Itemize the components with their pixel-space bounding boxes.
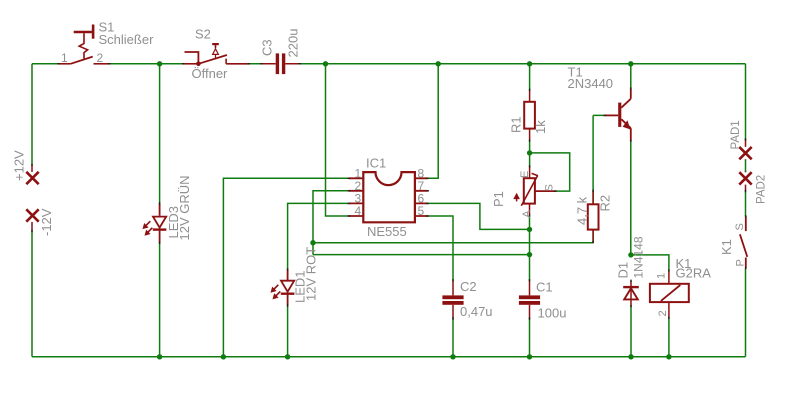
node top rail junctions	[157, 61, 634, 66]
svg-text:G2RA: G2RA	[676, 266, 712, 281]
svg-text:P1: P1	[491, 191, 506, 207]
wire pot A to C1	[529, 216, 531, 357]
svg-text:100u: 100u	[538, 306, 567, 321]
wire pin-end dark ticks	[32, 64, 746, 320]
wire R1 column and wiper loop	[530, 64, 570, 191]
wire IC pin8 to top rail	[428, 64, 439, 179]
resistor R1	[524, 90, 535, 141]
LED3 12V GRUEN	[143, 203, 166, 242]
svg-text:PAD1: PAD1	[730, 120, 742, 149]
wire IC pin1 to ground	[223, 178, 348, 356]
svg-text:-12V: -12V	[39, 208, 54, 236]
svg-text:NE555: NE555	[367, 224, 407, 239]
svg-text:D1: D1	[616, 262, 631, 279]
svg-text:S: S	[734, 223, 746, 230]
capacitor C2	[442, 295, 463, 304]
pad PAD1	[739, 140, 751, 161]
svg-text:E: E	[519, 171, 531, 178]
svg-text:Öffner: Öffner	[192, 66, 229, 81]
svg-text:A: A	[521, 210, 533, 218]
svg-text:Schließer: Schließer	[99, 32, 155, 47]
wire IC pin3 to LED1	[288, 203, 349, 356]
svg-text:PAD2: PAD2	[756, 175, 768, 204]
node S2 pivot	[196, 62, 201, 67]
switch S1	[59, 25, 110, 64]
switch S2	[183, 44, 249, 64]
svg-text:4,7 k: 4,7 k	[575, 196, 590, 225]
wire IC pin6 to pot	[428, 203, 530, 229]
label IC1 pin numbers right	[418, 167, 425, 219]
wire left rail	[31, 64, 33, 357]
wire IC pin2 net	[313, 191, 593, 255]
svg-text:1k: 1k	[533, 120, 548, 134]
LED1 12V ROT	[271, 269, 294, 305]
wire T1 collector / emitter column	[630, 64, 632, 357]
svg-text:12V GRÜN: 12V GRÜN	[177, 175, 192, 240]
IC1 pins 1-4	[349, 178, 364, 216]
svg-text:0,47u: 0,47u	[460, 304, 493, 319]
svg-text:C3: C3	[260, 39, 275, 56]
wire relay branch	[631, 255, 669, 357]
label IC1 pin numbers left	[355, 167, 362, 219]
pad -12V	[26, 209, 38, 231]
pad PAD2	[739, 172, 751, 192]
svg-text:C2: C2	[460, 279, 477, 294]
label S1	[99, 20, 155, 48]
node middle junctions	[310, 150, 633, 257]
svg-text:220u: 220u	[286, 29, 301, 58]
svg-text:2: 2	[97, 51, 104, 65]
svg-text:12V ROT: 12V ROT	[304, 247, 319, 301]
wire bottom rail	[32, 356, 746, 358]
capacitor C3	[261, 53, 300, 74]
transistor T1 2N3440	[605, 89, 631, 141]
wire R2 to T1 base	[593, 115, 605, 242]
wire LED3 column	[159, 64, 161, 357]
svg-text:2: 2	[657, 310, 669, 316]
svg-text:4: 4	[355, 204, 362, 218]
svg-text:K1: K1	[719, 239, 734, 255]
diode D1 1N4148	[623, 281, 639, 306]
IC1 pins 8-5	[415, 178, 428, 216]
resistor R2	[588, 191, 599, 243]
svg-text:2N3440: 2N3440	[568, 76, 614, 91]
svg-text:5: 5	[418, 204, 425, 218]
potentiometer P1	[514, 166, 555, 215]
relay K1 coil	[650, 270, 689, 318]
svg-text:1: 1	[656, 273, 668, 279]
svg-text:P: P	[735, 259, 747, 266]
svg-text:R2: R2	[598, 195, 613, 212]
capacitor C1	[519, 295, 540, 304]
svg-text:C1: C1	[536, 280, 553, 295]
svg-text:+12V: +12V	[12, 150, 27, 181]
svg-text:R1: R1	[509, 116, 524, 133]
pad +12V	[26, 165, 38, 184]
wire IC pin5 to C2	[428, 216, 454, 280]
svg-text:S: S	[544, 184, 556, 191]
svg-text:1N4148: 1N4148	[632, 236, 646, 278]
label S1 pin numbers	[61, 51, 104, 65]
svg-text:S2: S2	[195, 27, 211, 42]
node bottom rail junctions	[157, 354, 672, 359]
svg-text:1: 1	[61, 51, 68, 65]
label S2	[192, 27, 229, 82]
wire top rail	[32, 63, 746, 65]
svg-text:IC1: IC1	[366, 156, 386, 171]
wire IC pin4 to top rail	[326, 64, 349, 216]
wire right rail	[745, 64, 747, 357]
op-amp IC1 NE555 body	[363, 172, 415, 222]
wire C2 bottom	[452, 319, 454, 357]
relay contact K1	[740, 217, 747, 269]
